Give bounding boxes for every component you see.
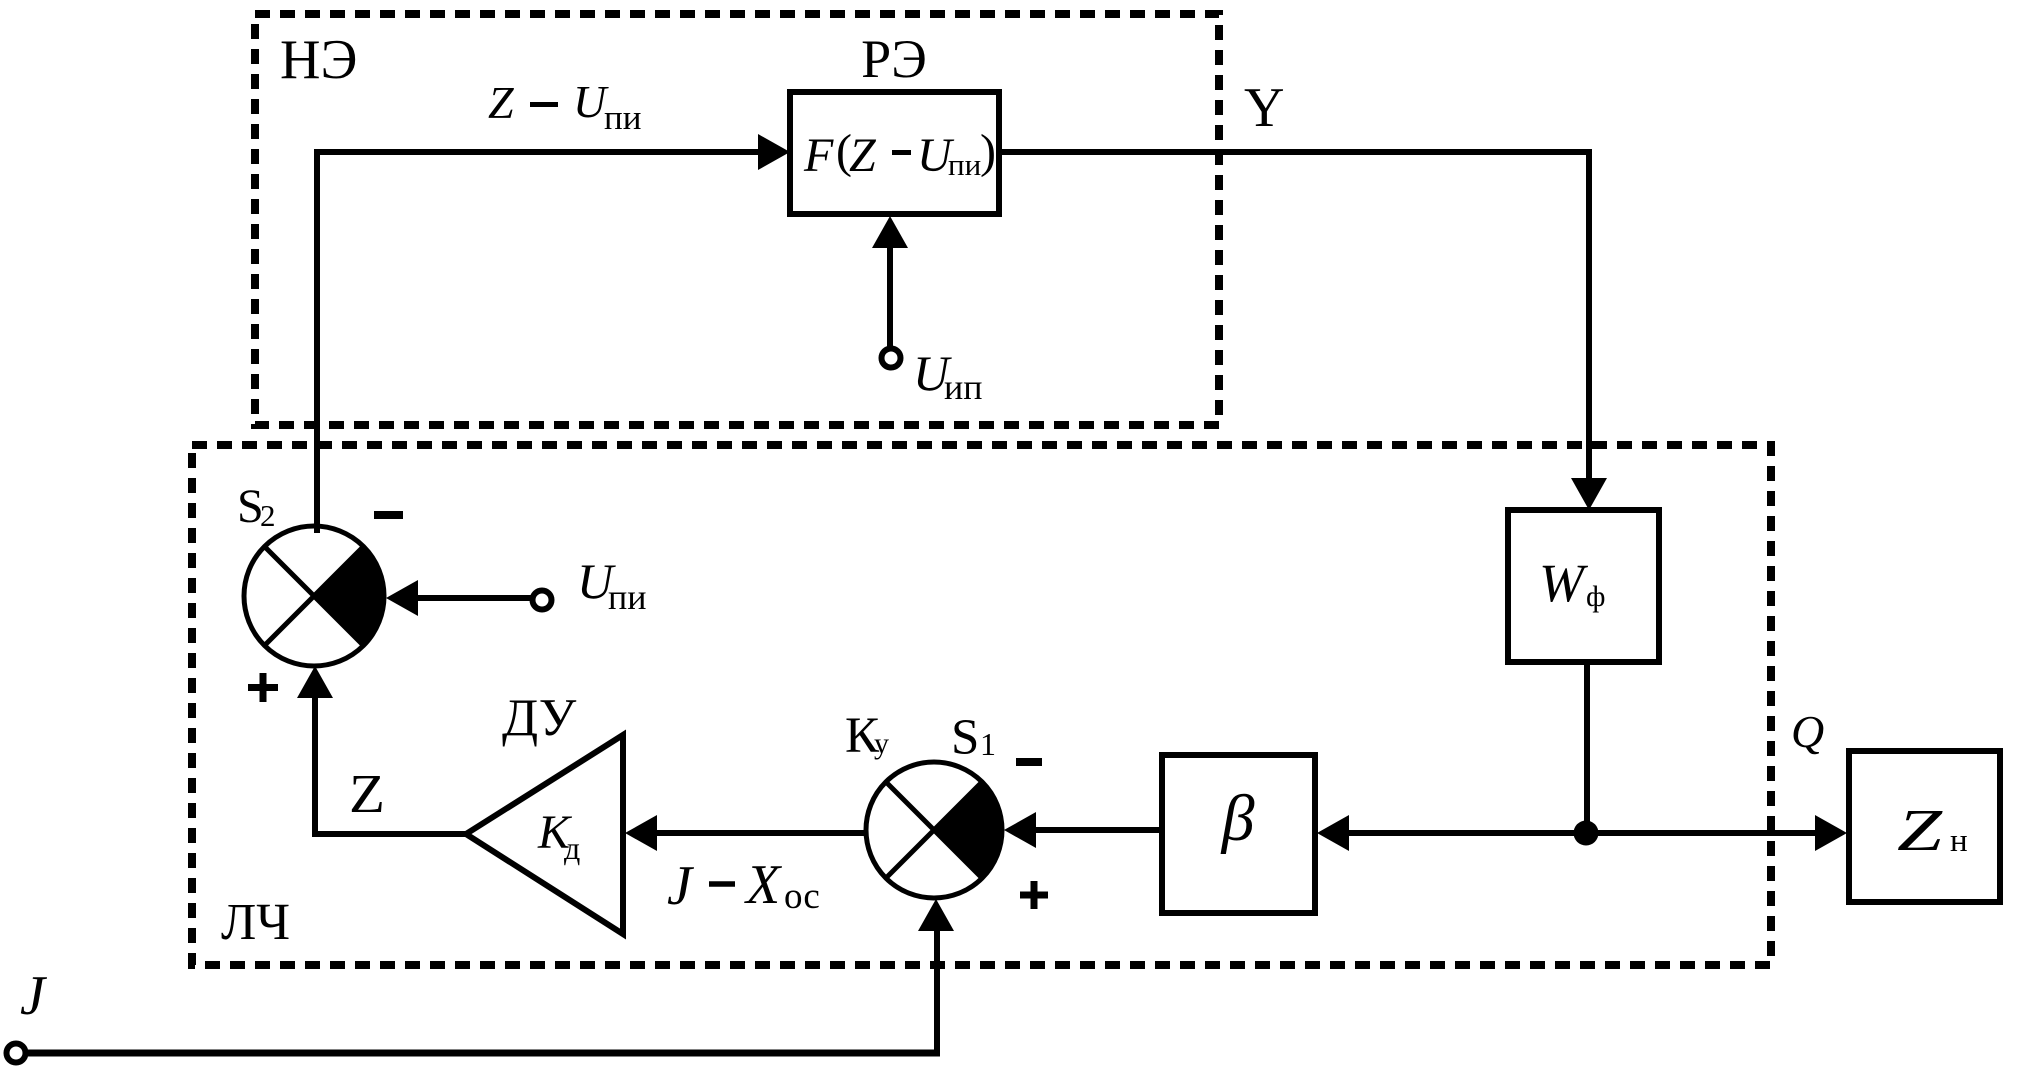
svg-text:ип: ип [944,367,983,407]
block Wф [1508,510,1659,662]
block Zн [1849,751,2000,902]
svg-text:Z: Z [488,77,514,128]
svg-text:ос: ос [784,876,820,917]
svg-text:Z: Z [349,763,385,824]
svg-text:ЛЧ: ЛЧ [221,894,290,951]
wire РЭ output right [999,149,1592,155]
plus sign at S1 [1020,881,1048,909]
label J - Xос [667,854,820,917]
svg-text:Z: Z [849,129,877,182]
svg-text:н: н [1950,823,1968,859]
terminal Uип [882,349,901,368]
svg-text:S: S [951,710,979,766]
svg-text:J: J [667,855,695,917]
wire Uип terminal to РЭ with arrowhead [872,216,908,349]
svg-text:пи: пи [604,98,641,137]
svg-text:): ) [980,125,996,178]
dashed box ЛЧ [192,445,1771,965]
wire junction to Zн with arrowhead [1586,815,1847,851]
wire junction to β with arrowhead [1317,815,1586,851]
svg-text:1: 1 [980,726,996,762]
block РЭ F(Z-Uпи) [790,92,999,214]
wire S1 to ДУ with arrowhead [625,815,866,851]
plus sign at S2 [248,673,278,702]
junction node [1574,821,1599,846]
svg-text:X: X [744,854,783,916]
svg-text:д: д [564,830,580,866]
minus sign at S1 [1016,758,1042,766]
svg-text:у: у [874,727,889,760]
svg-text:2: 2 [260,498,276,533]
wire ДУ output to corner and up to S2 with arrowhead [297,666,469,837]
svg-text:Z: Z [1897,797,1944,863]
label Z - Uпи [488,76,641,137]
wire Wф to junction [1584,662,1590,836]
block β [1162,755,1315,913]
svg-text:ДУ: ДУ [502,689,577,747]
wire down to Wф with arrowhead [1571,149,1607,510]
svg-text:Q: Q [1791,706,1824,757]
svg-text:Y: Y [1244,77,1284,139]
svg-text:β: β [1220,782,1255,855]
svg-text:F: F [803,129,834,182]
svg-text:РЭ: РЭ [861,29,927,89]
wire S2 output up to corner [314,152,320,533]
wire J input along bottom and up to S1 with arrowhead [26,899,954,1056]
svg-text:пи: пи [948,147,981,182]
minus sign at S2 [374,511,403,519]
terminal Uпи [533,591,552,610]
summing junction S1 [866,762,1002,898]
terminal J [7,1044,26,1063]
wire β to S1 with arrowhead [1004,812,1162,848]
svg-text:ф: ф [1586,580,1605,613]
wire corner to РЭ input with arrowhead [314,134,790,170]
wire Uпи terminal to S2 with arrowhead [386,580,534,616]
svg-text:W: W [1539,553,1589,613]
summing junction S2 [244,526,384,666]
dashed box НЭ [255,14,1219,425]
svg-text:J: J [20,965,48,1027]
svg-text:пи: пи [608,577,647,617]
amplifier triangle ДУ Кд [466,735,623,934]
svg-text:НЭ: НЭ [280,29,357,91]
